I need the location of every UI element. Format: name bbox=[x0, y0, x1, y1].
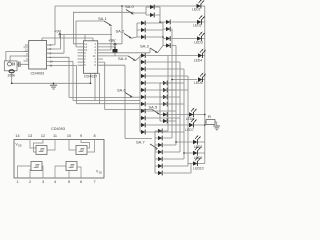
wire: riser x60.5 IC1 pin to bus bbox=[47, 35, 61, 50]
gate C bbox=[76, 146, 87, 155]
LED4 bbox=[198, 49, 205, 58]
LED2 bbox=[197, 16, 204, 25]
IC1 left stubs bbox=[24, 47, 29, 61]
svg-text:LED2: LED2 bbox=[193, 23, 202, 27]
diode D1 bbox=[150, 5, 154, 10]
ground right bbox=[213, 126, 220, 130]
svg-text:3: 3 bbox=[42, 180, 44, 184]
wire: LED8-10 out bbox=[197, 142, 204, 164]
svg-text:SA.3: SA.3 bbox=[140, 44, 149, 49]
wire: riser x55 from IC1 pin to top rail bbox=[47, 6, 55, 45]
wire: nested corner x73.4 y12.3 bbox=[73, 12, 134, 44]
wire: LED9 row bbox=[184, 152, 193, 154]
gate B bbox=[66, 162, 77, 171]
svg-text:LED5: LED5 bbox=[194, 81, 203, 85]
wire: LED7 row bbox=[146, 124, 189, 126]
LED5 bbox=[198, 73, 205, 82]
gate D bbox=[36, 146, 47, 155]
svg-text:1: 1 bbox=[16, 180, 18, 184]
wire: LED10 row bbox=[188, 163, 193, 165]
diode D9 bbox=[166, 43, 170, 48]
svg-text:100k: 100k bbox=[7, 73, 15, 77]
diode D4 bbox=[141, 28, 145, 33]
svg-text:SA.7: SA.7 bbox=[136, 140, 145, 145]
svg-text:SA.6: SA.6 bbox=[117, 88, 126, 93]
svg-text:+9V: +9V bbox=[54, 29, 62, 34]
capacitor C1 bbox=[18, 62, 20, 68]
svg-text:10: 10 bbox=[67, 134, 71, 138]
svg-text:SS: SS bbox=[99, 172, 103, 175]
wire: gate A inputs bbox=[18, 166, 32, 178]
wire: D3-D5 outs bbox=[146, 22, 163, 46]
wire: gate B inputs bbox=[69, 167, 81, 178]
wire: riser x64 IC1 pin to bus bbox=[47, 35, 64, 54]
svg-text:R: R bbox=[208, 114, 211, 119]
svg-text:LED7: LED7 bbox=[185, 128, 194, 132]
svg-text:SA.2: SA.2 bbox=[116, 29, 125, 34]
LED10 bbox=[193, 157, 200, 166]
svg-text:CD4017: CD4017 bbox=[84, 75, 98, 79]
IC1 right stubs bbox=[47, 45, 52, 53]
svg-text:SA.4: SA.4 bbox=[118, 56, 127, 61]
wire: IC2 right pin row y59 stub bbox=[98, 58, 103, 60]
wire: gate A output bbox=[42, 166, 43, 178]
wire: IC2 bottom drop x95 bbox=[94, 73, 96, 100]
svg-text:9: 9 bbox=[80, 134, 82, 138]
wire: +9V bus y34.5 bbox=[62, 35, 112, 41]
diode D3 bbox=[141, 21, 145, 26]
svg-text:CD4093: CD4093 bbox=[31, 72, 45, 76]
svg-text:LED4: LED4 bbox=[194, 59, 203, 63]
matrix wires right bbox=[146, 6, 217, 166]
wire: x122 from top rail down to IC2 pin row bbox=[98, 6, 122, 44]
LED7 bbox=[189, 119, 196, 128]
gate A bbox=[31, 162, 42, 171]
wire: LED6 row bbox=[168, 114, 189, 116]
diode D5 bbox=[141, 35, 145, 40]
wire: mic to IC1 pin row 51.5 bbox=[6, 52, 29, 61]
LED3 bbox=[197, 32, 204, 41]
mid diode column bus bbox=[140, 56, 141, 133]
svg-text:6: 6 bbox=[80, 180, 82, 184]
right mid diode column bus bbox=[160, 83, 163, 121]
wire: IC2 right pin row y46.9 with +9V tap bbox=[98, 43, 115, 56]
IC2 left stubs bbox=[78, 44, 84, 65]
power +9V left bbox=[59, 33, 62, 38]
wire: mic resistor to bus bbox=[11, 72, 13, 83]
bottom pin numbers bbox=[16, 180, 95, 184]
svg-text:8: 8 bbox=[93, 134, 95, 138]
diode column mid bbox=[141, 53, 145, 58]
wire: IC1 pin drop x73 to bus corner bbox=[47, 61, 140, 100]
capacitor C2 blob bbox=[113, 49, 118, 53]
resistor R bbox=[206, 120, 215, 125]
svg-text:SA.5: SA.5 bbox=[149, 105, 158, 110]
wire: ground bus bbox=[12, 82, 91, 84]
wire: D1 D2 merge bbox=[155, 7, 163, 22]
IC2 pin numbers bbox=[84, 44, 96, 67]
diode D7 bbox=[166, 27, 170, 32]
diode D8 bbox=[166, 36, 170, 41]
svg-text:LED1: LED1 bbox=[192, 7, 201, 11]
wire: LED2 row bbox=[171, 21, 197, 23]
svg-text:CD4093: CD4093 bbox=[51, 127, 65, 131]
wire: top rail y6 to LED1 bbox=[55, 5, 197, 7]
LED8 bbox=[193, 136, 200, 145]
IC1 left pin numbers bbox=[25, 44, 28, 61]
microphone box bbox=[4, 61, 17, 71]
svg-text:SA.1: SA.1 bbox=[98, 16, 107, 21]
wire: LED3 row bbox=[171, 38, 197, 40]
wire: IC2 bottom drop x99.5 bbox=[98, 73, 100, 103]
top pin numbers bbox=[15, 134, 95, 138]
wire: gate C output bbox=[69, 140, 76, 151]
wire: IC1 pin drop x69 to SA.6 bbox=[47, 57, 132, 97]
wire: mic through cap to IC1 pin bbox=[17, 63, 29, 65]
svg-text:4: 4 bbox=[54, 180, 56, 184]
diode group SA.0 bracket bbox=[146, 7, 150, 15]
wire: gate D inputs bbox=[30, 140, 43, 153]
wire: mic to IC1 pin row 56 bbox=[10, 56, 29, 61]
wire: vertical rails bbox=[168, 29, 188, 166]
wire: R to ground bbox=[215, 122, 217, 126]
diode group SA.1 bracket bbox=[137, 23, 141, 37]
wire: IC2 right pin row y62.1 down to SA.5 line bbox=[98, 62, 152, 109]
svg-text:LED10: LED10 bbox=[193, 167, 203, 171]
diode column SA.5 bbox=[163, 81, 167, 86]
LED1 bbox=[197, 0, 204, 9]
wire: LED8 row bbox=[176, 141, 193, 143]
svg-text:14: 14 bbox=[15, 134, 19, 138]
IC U2 CD4017 bbox=[83, 41, 97, 74]
ground under IC1 bbox=[53, 83, 55, 85]
microphone symbol bbox=[8, 62, 12, 66]
wire: nested corner x76 y21 bbox=[76, 21, 104, 47]
diode D6 bbox=[166, 20, 170, 25]
wire: gate C inputs bbox=[81, 140, 95, 153]
wire: gate D output bbox=[47, 140, 55, 151]
wire: rail top stubs bbox=[146, 29, 188, 132]
wire: gate B output bbox=[55, 166, 66, 178]
wire: cathode rail bbox=[201, 6, 205, 164]
LED9 bbox=[193, 147, 200, 156]
wire: IC2 right pin row y55.9 to SA.4 bbox=[98, 55, 128, 57]
resistor 100k body bbox=[9, 70, 14, 73]
wire: SA.5 col outs bbox=[168, 83, 184, 121]
svg-text:DD: DD bbox=[18, 145, 22, 148]
svg-text:+9V: +9V bbox=[108, 38, 116, 43]
wire: LED5 feed bbox=[172, 79, 197, 81]
wire: IC1 pin drop x76.5 to bus corner bbox=[47, 66, 140, 104]
wire: +9V bus y38 bbox=[42, 38, 93, 41]
wire: rail to R bbox=[205, 121, 206, 123]
IC1 pin numbers bbox=[50, 43, 53, 68]
LED6 bbox=[189, 108, 196, 117]
svg-text:7: 7 bbox=[93, 180, 95, 184]
bottom diode column bbox=[155, 131, 158, 173]
svg-text:13: 13 bbox=[28, 134, 32, 138]
svg-text:12: 12 bbox=[41, 134, 45, 138]
wire: LED6/7 out bbox=[193, 115, 204, 126]
svg-text:2: 2 bbox=[29, 180, 31, 184]
svg-text:LED3: LED3 bbox=[194, 40, 203, 44]
IC U1 CD4093 bbox=[29, 41, 47, 70]
svg-text:11: 11 bbox=[53, 134, 57, 138]
svg-text:LED9: LED9 bbox=[194, 156, 203, 160]
svg-text:SA.0: SA.0 bbox=[125, 4, 134, 9]
diode D2 bbox=[150, 13, 154, 18]
power +9V right bbox=[114, 43, 117, 48]
wire: bottom diode outs bbox=[163, 131, 191, 173]
wire: IC2 right pin row y65.2 down to SA.7 bbox=[98, 65, 152, 138]
wire: IC2 bottom stub to ground bus bbox=[90, 73, 92, 83]
wire: LED4 row bbox=[146, 55, 198, 57]
svg-text:5: 5 bbox=[68, 180, 70, 184]
wire: SA.1 drop x111 bbox=[98, 27, 111, 51]
